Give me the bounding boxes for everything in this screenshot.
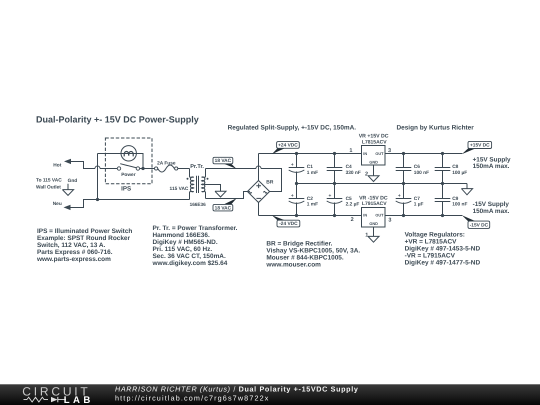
svg-text:Regulated Split-Supply, +-15V: Regulated Split-Supply, +-15V DC, 150mA. bbox=[228, 125, 357, 132]
svg-text:Hammond 166E36.: Hammond 166E36. bbox=[153, 232, 210, 239]
svg-text:OUT: OUT bbox=[375, 152, 384, 156]
svg-text:3: 3 bbox=[388, 148, 391, 154]
svg-text:C4: C4 bbox=[346, 164, 352, 170]
svg-text:+: + bbox=[291, 194, 294, 199]
svg-text:Gnd: Gnd bbox=[68, 178, 78, 184]
svg-text:1: 1 bbox=[365, 232, 368, 238]
svg-text:+24 VDC: +24 VDC bbox=[278, 143, 298, 149]
svg-text:2.2 µF: 2.2 µF bbox=[346, 202, 360, 208]
svg-text:330 nF: 330 nF bbox=[346, 170, 361, 176]
svg-text:+15V DC: +15V DC bbox=[470, 143, 490, 149]
svg-text:Power: Power bbox=[121, 172, 136, 178]
svg-text:2: 2 bbox=[351, 217, 354, 223]
svg-text:Neu: Neu bbox=[53, 201, 62, 207]
svg-text:-VR = L7915ACV: -VR = L7915ACV bbox=[405, 252, 456, 259]
svg-text:100 µF: 100 µF bbox=[452, 170, 467, 176]
svg-text:166E36: 166E36 bbox=[190, 202, 207, 207]
svg-text:Example: SPST Round Rocker: Example: SPST Round Rocker bbox=[37, 235, 131, 242]
svg-text:Switch, 112 VAC, 13 A.: Switch, 112 VAC, 13 A. bbox=[37, 242, 106, 249]
svg-text:IPS = Illuminated Power Switch: IPS = Illuminated Power Switch bbox=[37, 228, 132, 235]
svg-text:2: 2 bbox=[365, 171, 368, 177]
svg-text:DigiKey # HM565-ND.: DigiKey # HM565-ND. bbox=[153, 239, 218, 246]
svg-text:www.parts-express.com: www.parts-express.com bbox=[36, 256, 111, 263]
svg-text:IPS: IPS bbox=[121, 186, 131, 193]
svg-text:-15V DC: -15V DC bbox=[470, 222, 489, 228]
svg-text:Parts Express # 060-716.: Parts Express # 060-716. bbox=[37, 249, 113, 256]
svg-text:3: 3 bbox=[388, 217, 391, 223]
svg-text:150mA max.: 150mA max. bbox=[473, 163, 510, 170]
svg-text:C7: C7 bbox=[414, 196, 420, 202]
svg-text:Wall Outlet: Wall Outlet bbox=[36, 184, 61, 190]
svg-text:L7815ACV: L7815ACV bbox=[362, 139, 387, 145]
svg-text:HARRISON RICHTER (Kurtus) / Du: HARRISON RICHTER (Kurtus) / Dual Polarit… bbox=[115, 384, 359, 393]
svg-text:+: + bbox=[328, 194, 331, 199]
svg-text:C9: C9 bbox=[452, 196, 458, 202]
svg-text:18 VAC: 18 VAC bbox=[215, 158, 232, 164]
svg-text:1 µF: 1 µF bbox=[414, 202, 424, 208]
svg-text:Voltage Regulators:: Voltage Regulators: bbox=[405, 231, 465, 238]
svg-text:Mouser # 844-KBPC1005.: Mouser # 844-KBPC1005. bbox=[266, 254, 343, 261]
svg-text:2A Fuse: 2A Fuse bbox=[157, 160, 176, 166]
svg-text:To 115 VAC: To 115 VAC bbox=[36, 178, 62, 184]
svg-text:BR: BR bbox=[266, 179, 274, 185]
svg-text:C6: C6 bbox=[414, 164, 420, 170]
svg-text:115 VAC: 115 VAC bbox=[170, 186, 189, 192]
svg-text:DigiKey # 497-1477-5-ND: DigiKey # 497-1477-5-ND bbox=[405, 259, 481, 266]
svg-text:L7915ACV: L7915ACV bbox=[362, 201, 387, 207]
svg-text:Pr. Tr. = Power Transformer.: Pr. Tr. = Power Transformer. bbox=[153, 225, 238, 232]
svg-text:IN: IN bbox=[363, 214, 367, 218]
svg-text:Pr.Tr.: Pr.Tr. bbox=[190, 164, 204, 170]
svg-text:Vishay VS-KBPC1005, 50V, 3A.: Vishay VS-KBPC1005, 50V, 3A. bbox=[266, 247, 360, 254]
svg-text:150mA max.: 150mA max. bbox=[473, 208, 510, 215]
svg-text:+: + bbox=[398, 194, 401, 199]
svg-text:Pri. 115 VAC, 60 Hz.: Pri. 115 VAC, 60 Hz. bbox=[153, 246, 213, 253]
svg-text:C2: C2 bbox=[307, 196, 313, 202]
svg-text:OUT: OUT bbox=[375, 214, 384, 218]
svg-text:1 mF: 1 mF bbox=[307, 202, 318, 208]
svg-text:http://circuitlab.com/c7rg6s7w: http://circuitlab.com/c7rg6s7w8722x bbox=[115, 393, 270, 402]
svg-text:IN: IN bbox=[363, 152, 367, 156]
svg-text:+: + bbox=[291, 163, 294, 168]
svg-text:-24 VDC: -24 VDC bbox=[279, 221, 298, 227]
svg-text:DigiKey # 497-1453-5-ND: DigiKey # 497-1453-5-ND bbox=[405, 245, 481, 252]
svg-text:C5: C5 bbox=[346, 196, 352, 202]
svg-text:LAB: LAB bbox=[64, 395, 94, 405]
svg-text:C8: C8 bbox=[452, 164, 458, 170]
svg-text:Design by Kurtus Richter: Design by Kurtus Richter bbox=[397, 125, 475, 132]
svg-text:18 VAC: 18 VAC bbox=[215, 205, 232, 211]
svg-text:1 mF: 1 mF bbox=[307, 170, 318, 176]
svg-text:1: 1 bbox=[349, 148, 352, 154]
svg-text:100 nF: 100 nF bbox=[452, 202, 467, 208]
svg-text:GND: GND bbox=[369, 222, 378, 226]
svg-text:Hot: Hot bbox=[53, 163, 61, 169]
svg-text:GND: GND bbox=[369, 160, 378, 164]
svg-text:www.mouser.com: www.mouser.com bbox=[265, 261, 321, 268]
svg-text:BR = Bridge Rectifier.: BR = Bridge Rectifier. bbox=[266, 240, 332, 247]
svg-text:www.digikey.com $25.64: www.digikey.com $25.64 bbox=[152, 260, 228, 267]
svg-text:100 nF: 100 nF bbox=[414, 170, 429, 176]
svg-text:+VR = L7815ACV: +VR = L7815ACV bbox=[405, 238, 458, 245]
svg-text:C1: C1 bbox=[307, 164, 313, 170]
svg-text:Dual-Polarity +- 15V DC Power-: Dual-Polarity +- 15V DC Power-Supply bbox=[36, 114, 199, 124]
svg-text:Sec. 36 VAC CT, 150mA.: Sec. 36 VAC CT, 150mA. bbox=[153, 253, 226, 260]
